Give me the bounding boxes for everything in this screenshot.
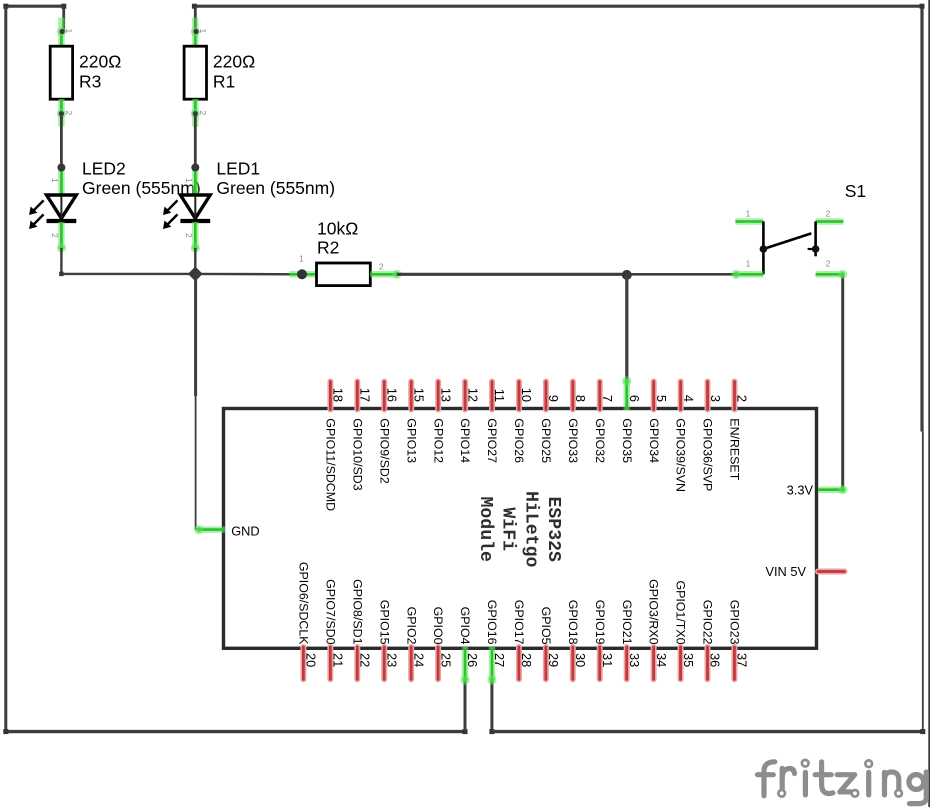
wire R1 to LED1 [194, 114, 197, 168]
svg-text:ESP32S: ESP32S [543, 496, 563, 562]
ESP32 3.3V pin [818, 486, 844, 493]
junction dot GPIO35 [622, 270, 632, 280]
ESP32 top pin 12 (GPIO14) [462, 382, 468, 410]
wire bottom-left horizontal (to GPIO4) [6, 730, 465, 733]
wire R2 to GPIO35 junction [397, 273, 627, 276]
ESP32 bottom pin 25 (GPIO0) [435, 647, 441, 679]
svg-text:22: 22 [357, 653, 372, 667]
switch S1 right contact tick [808, 248, 818, 250]
svg-text:7: 7 [600, 395, 615, 402]
svg-text:4: 4 [681, 395, 696, 402]
ESP32 bottom pin 22 (GPIO8/SD1) [354, 647, 360, 679]
switch S1 left contact [762, 222, 765, 275]
svg-text:GPIO32: GPIO32 [593, 418, 607, 463]
svg-text:220Ω: 220Ω [79, 52, 121, 72]
svg-text:17: 17 [358, 388, 373, 402]
switch S1 pin 1 bottom [735, 271, 764, 278]
svg-text:GPIO16: GPIO16 [485, 600, 499, 645]
ESP32 bottom pin 23 (GPIO15) [381, 647, 387, 679]
svg-text:3.3V: 3.3V [787, 482, 814, 497]
svg-text:Green (555nm): Green (555nm) [216, 178, 335, 198]
junction dot at R2 pin 1 [297, 269, 307, 279]
svg-text:2: 2 [826, 259, 831, 269]
svg-text:LED2: LED2 [82, 159, 126, 179]
wire bottom-right horizontal [492, 730, 923, 733]
svg-text:2: 2 [184, 233, 194, 238]
svg-text:1: 1 [746, 259, 751, 269]
LED2 cathode bar [47, 219, 77, 223]
ESP32 bottom pin 27 (GPIO16) [489, 647, 496, 680]
ESP32 bottom pin 37 (GPIO23) [731, 647, 737, 679]
svg-text:5: 5 [654, 395, 669, 402]
svg-text:GPIO10/SD3: GPIO10/SD3 [350, 418, 364, 490]
ESP32 bottom pin 28 (GPIO17) [516, 647, 522, 679]
resistor R2 pin 2 [370, 271, 397, 278]
svg-text:GPIO15: GPIO15 [377, 600, 391, 645]
LED2 emission arrows [33, 200, 43, 211]
svg-text:35: 35 [681, 653, 696, 667]
svg-text:30: 30 [573, 653, 588, 667]
ESP32 top pin 4 (GPIO39/SVN) [678, 382, 684, 410]
fritzing logo [758, 760, 927, 804]
ESP32 top pin 16 (GPIO9/SD2) [381, 382, 387, 410]
ESP32 bottom pin 34 (GPIO3/RX0) [651, 647, 657, 679]
LED1 pin 1 (anode) [192, 168, 199, 197]
svg-text:GPIO4: GPIO4 [458, 607, 472, 645]
svg-text:HiLetgo: HiLetgo [520, 491, 540, 567]
switch S1 pin 1 top [735, 218, 763, 225]
ESP32 bottom pin 36 (GPIO22) [705, 647, 711, 679]
svg-text:GND: GND [231, 523, 259, 538]
wire from top rail to R1 [194, 6, 197, 31]
svg-text:GPIO21: GPIO21 [620, 600, 634, 645]
svg-text:18: 18 [331, 388, 346, 402]
wire junction to R2 [195, 273, 302, 276]
wire GND drop upper [194, 274, 197, 396]
switch S1 pin 2 top [816, 218, 844, 225]
svg-text:1: 1 [299, 254, 304, 264]
svg-text:R3: R3 [79, 72, 101, 92]
resistor R3 body [50, 46, 72, 99]
wire R3 to LED2 [60, 114, 63, 168]
LED1 pin 2 (cathode) [192, 222, 199, 249]
svg-text:25: 25 [438, 653, 453, 667]
svg-text:GPIO25: GPIO25 [539, 418, 553, 463]
svg-text:GPIO17: GPIO17 [512, 600, 526, 645]
svg-text:GPIO39/SVN: GPIO39/SVN [674, 418, 688, 492]
LED1 triangle [180, 195, 210, 218]
svg-text:GPIO5: GPIO5 [539, 607, 553, 645]
svg-text:GPIO6/SDCLK: GPIO6/SDCLK [297, 562, 311, 645]
LED2 pin 1 (anode) [58, 168, 65, 197]
svg-text:WiFi: WiFi [498, 507, 518, 551]
svg-text:GPIO9/SD2: GPIO9/SD2 [377, 418, 391, 484]
ESP32 module U1 body [224, 409, 817, 649]
svg-text:GPIO18: GPIO18 [566, 600, 580, 645]
ESP32 top pin 9 (GPIO25) [543, 382, 549, 410]
svg-text:31: 31 [600, 653, 615, 667]
LED2 triangle [47, 195, 77, 218]
LED1 emission arrows [167, 200, 177, 211]
svg-text:37: 37 [735, 653, 750, 667]
svg-text:1: 1 [198, 29, 208, 34]
svg-text:GPIO22: GPIO22 [701, 600, 715, 645]
resistor R2 body [317, 263, 371, 286]
svg-text:12: 12 [465, 388, 480, 402]
svg-text:R2: R2 [317, 238, 339, 258]
ESP32 top pin 10 (GPIO26) [516, 382, 522, 410]
wire right vertical upper [920, 6, 923, 431]
ESP32 module title [475, 491, 563, 567]
wire LED2 down-corner [60, 248, 62, 274]
svg-text:LED1: LED1 [216, 159, 260, 179]
ESP32 bottom pin 31 (GPIO19) [597, 647, 603, 679]
svg-text:EN/RESET: EN/RESET [728, 418, 742, 480]
resistor R1 pin 1 [192, 18, 199, 47]
ESP32 bottom pin 35 (GPIO1/TX0) [678, 647, 684, 679]
svg-text:GPIO33: GPIO33 [566, 418, 580, 463]
resistor R1 pin 2 [192, 99, 199, 127]
svg-text:2: 2 [735, 395, 750, 402]
svg-text:GPIO23: GPIO23 [728, 600, 742, 645]
ESP32 top pin 5 (GPIO34) [651, 382, 657, 410]
svg-text:28: 28 [519, 653, 534, 667]
svg-text:8: 8 [573, 395, 588, 402]
svg-text:16: 16 [384, 388, 399, 402]
wire junction to S1 [627, 273, 735, 276]
svg-text:GPIO8/SD1: GPIO8/SD1 [350, 579, 364, 645]
ESP32 bottom pin 29 (GPIO5) [543, 647, 549, 679]
svg-text:13: 13 [438, 388, 453, 402]
ESP32 top pin 6 (GPIO35) [623, 381, 630, 411]
svg-text:GPIO2: GPIO2 [404, 607, 418, 645]
ESP32 top pin 2 (EN/RESET) [732, 382, 738, 410]
svg-text:220Ω: 220Ω [213, 52, 255, 72]
svg-text:23: 23 [384, 653, 399, 667]
svg-text:GPIO34: GPIO34 [647, 418, 661, 463]
resistor R1 body [184, 46, 206, 99]
ESP32 top pin 17 (GPIO10/SD3) [354, 382, 360, 410]
svg-text:2: 2 [50, 233, 60, 238]
svg-text:2: 2 [64, 111, 74, 116]
wire drop to GPIO35 pin 6 [625, 274, 628, 381]
svg-text:27: 27 [492, 653, 507, 667]
ESP32 bottom pin 20 (GPIO6/SDCLK) [300, 647, 306, 679]
svg-text:GPIO26: GPIO26 [512, 418, 526, 463]
svg-text:GPIO19: GPIO19 [593, 600, 607, 645]
svg-text:GPIO36/SVP: GPIO36/SVP [701, 418, 715, 491]
svg-text:15: 15 [411, 388, 426, 402]
svg-text:3: 3 [708, 395, 723, 402]
svg-text:29: 29 [546, 653, 561, 667]
svg-text:26: 26 [465, 653, 480, 667]
svg-text:GPIO7/SD0: GPIO7/SD0 [323, 579, 337, 645]
svg-text:9: 9 [546, 395, 561, 402]
LED2 pin 2 (cathode) [58, 222, 65, 249]
svg-text:VIN 5V: VIN 5V [765, 564, 806, 579]
switch S1 lever [763, 233, 811, 249]
svg-text:Module: Module [475, 496, 495, 562]
svg-text:S1: S1 [845, 181, 866, 201]
ESP32 bottom pin 30 (GPIO18) [570, 647, 576, 679]
ESP32 bottom pin 24 (GPIO2) [408, 647, 414, 679]
svg-text:GPIO27: GPIO27 [485, 418, 499, 463]
ESP32 top pin 8 (GPIO33) [570, 382, 576, 410]
svg-text:11: 11 [492, 389, 507, 402]
svg-text:10kΩ: 10kΩ [317, 219, 358, 239]
ESP32 bottom pin 26 (GPIO4) [462, 647, 469, 680]
ESP32 top pin 7 (GPIO32) [597, 382, 603, 410]
svg-text:6: 6 [627, 395, 642, 402]
wire left vertical [4, 6, 7, 731]
wire riser to GPIO4 pin 26 [464, 680, 467, 732]
right image-edge border line [928, 0, 930, 807]
switch S1 pivot dots [760, 245, 768, 253]
wire top-left horizontal [6, 5, 64, 8]
svg-text:R1: R1 [213, 72, 235, 92]
ESP32 top pin 13 (GPIO12) [435, 382, 441, 410]
resistor R3 pin 1 [58, 18, 65, 47]
LED1 cathode bar [180, 219, 210, 223]
ESP32 top pin 18 (GPIO11/SDCMD) [327, 382, 333, 410]
junction at LED1 cathode [194, 248, 196, 274]
svg-text:GPIO13: GPIO13 [404, 418, 418, 463]
switch S1 right contact [814, 222, 817, 257]
ESP32 GND pin [199, 526, 225, 533]
svg-text:21: 21 [331, 653, 346, 667]
svg-text:1: 1 [184, 178, 194, 183]
wire LED2 to LED1 junction [61, 273, 195, 275]
svg-text:GPIO3/RX0: GPIO3/RX0 [647, 579, 661, 645]
wire S1 to 3.3V [841, 274, 844, 489]
switch S1 pin 2 bottom [816, 271, 843, 278]
svg-text:2: 2 [379, 262, 384, 272]
svg-text:1: 1 [50, 178, 60, 183]
ESP32 VIN 5V pin [818, 569, 845, 575]
svg-text:20: 20 [304, 653, 319, 667]
ESP32 top pin 15 (GPIO13) [408, 382, 414, 410]
svg-text:GPIO0: GPIO0 [431, 607, 445, 645]
svg-text:24: 24 [411, 653, 426, 667]
svg-text:36: 36 [708, 653, 723, 667]
svg-text:34: 34 [654, 653, 669, 667]
svg-text:GPIO1/TX0: GPIO1/TX0 [674, 580, 688, 644]
wire from top rail to R3 [62, 6, 65, 31]
ESP32 top pin 3 (GPIO36/SVP) [705, 382, 711, 410]
wire GND drop lower (thin) [195, 396, 197, 530]
ESP32 top pin 11 (GPIO27) [489, 382, 495, 410]
svg-text:GPIO35: GPIO35 [620, 418, 634, 463]
ESP32 bottom pin 21 (GPIO7/SD0) [327, 647, 333, 679]
resistor R3 pin 2 [58, 99, 65, 127]
svg-text:33: 33 [627, 653, 642, 667]
svg-text:2: 2 [826, 209, 831, 219]
wire top horizontal [194, 5, 922, 8]
ESP32 bottom pin 33 (GPIO21) [624, 647, 630, 679]
wire riser from GPIO16 pin 27 [490, 680, 493, 732]
resistor R2 pin 1 [290, 271, 317, 278]
svg-text:GPIO14: GPIO14 [458, 418, 472, 463]
svg-text:GPIO11/SDCMD: GPIO11/SDCMD [324, 418, 338, 511]
svg-text:1: 1 [64, 29, 74, 34]
svg-text:GPIO12: GPIO12 [431, 418, 445, 463]
svg-text:1: 1 [746, 209, 751, 219]
svg-text:10: 10 [519, 388, 534, 402]
svg-text:2: 2 [198, 111, 208, 116]
wire right vertical lower (thin) [922, 432, 924, 732]
